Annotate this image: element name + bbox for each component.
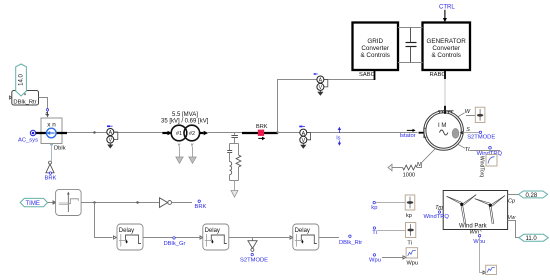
node circle (49, 161, 52, 164)
svg-text:CTRL: CTRL (439, 5, 455, 11)
wind turbine 2 (475, 196, 505, 225)
svg-text:WindTorq: WindTorq (478, 156, 484, 177)
svg-text:Win: Win (470, 230, 480, 236)
scope W (486, 265, 497, 274)
svg-text:V: V (109, 138, 113, 144)
port Cp to 0.28 (508, 195, 519, 205)
port Tl (458, 144, 500, 153)
buffer triangle (46, 164, 54, 173)
Delay block 2 (203, 224, 229, 250)
svg-text:Converter: Converter (361, 45, 389, 52)
bus wire xn to transformer (67, 132, 163, 134)
thick wire AC source (33, 132, 67, 134)
svg-text:A: A (109, 130, 113, 136)
svg-text:DBlk_Rtr: DBlk_Rtr (339, 240, 362, 246)
wind turbine 1 (447, 195, 477, 224)
label Wpu with wire (369, 254, 406, 264)
svg-text:Ti: Ti (407, 240, 411, 246)
junction at BRK right (276, 131, 278, 133)
slider kp (405, 195, 415, 219)
label kp with wire (371, 201, 405, 210)
svg-text:Delay: Delay (205, 228, 220, 234)
svg-text:AC_sys: AC_sys (18, 138, 38, 144)
label Ti with wire (372, 227, 405, 236)
component DBlk_Rtr (9, 91, 38, 106)
svg-text:DBlk_Gr: DBlk_Gr (164, 241, 186, 247)
label BRK (left) (45, 172, 57, 181)
Delay block 1 (117, 224, 143, 250)
input TIME (20, 198, 47, 206)
svg-text:Is: Is (336, 136, 340, 142)
wire Delay1 to Delay2, label DBlk_Gr (143, 237, 200, 239)
label WindTRQ (wind park) (424, 211, 450, 220)
svg-text:14.0: 14.0 (19, 74, 25, 86)
wire RABC to machine (444, 79, 446, 106)
svg-text:A: A (319, 78, 323, 84)
tap to S2TMODE (240, 238, 268, 264)
multimeter M3 (upper) (313, 73, 328, 96)
svg-text:WindTRQ: WindTRQ (424, 214, 450, 220)
junction dot (136, 201, 138, 203)
node AC_sys (18, 130, 38, 143)
svg-text:BRK: BRK (256, 124, 268, 130)
wire Win down to scope (480, 237, 484, 273)
svg-text:GRID: GRID (367, 38, 383, 45)
port W (458, 109, 476, 117)
svg-text:V: V (319, 85, 323, 91)
svg-text:Tm: Tm (435, 205, 443, 211)
svg-text:11.0: 11.0 (526, 236, 538, 242)
port Tm (435, 205, 443, 211)
svg-text:& Controls: & Controls (431, 52, 460, 59)
svg-text:Ti: Ti (372, 230, 377, 236)
junction dot (93, 131, 95, 133)
W meter box (475, 107, 485, 122)
svg-text:S: S (466, 127, 470, 133)
svg-text:Tl: Tl (465, 147, 470, 153)
svg-text:I M: I M (438, 123, 446, 129)
timed breaker logic block (56, 189, 82, 215)
filter branch (227, 133, 241, 198)
SABC stub (374, 70, 376, 80)
svg-text:kp: kp (371, 205, 377, 211)
svg-text:V: V (302, 138, 306, 144)
label WindTRQ (machine) (477, 147, 503, 157)
wire Delay3 output, label DBlk_Rtr (319, 237, 339, 239)
output 0.28 (519, 191, 548, 199)
wire up to grid converter (278, 80, 375, 133)
breaker BRK (242, 124, 278, 140)
source block x n (Dblk) (41, 118, 62, 144)
svg-text:Delay: Delay (119, 228, 134, 234)
wire down to Delay 1 (95, 203, 113, 238)
svg-text:GENERATOR: GENERATOR (427, 38, 467, 45)
slider Ti (406, 223, 416, 247)
label BRK (output) (195, 200, 207, 210)
port Win (470, 230, 482, 236)
port S with marker (452, 127, 480, 138)
transformer T1 (162, 125, 208, 141)
svg-text:#2: #2 (189, 131, 195, 137)
svg-text:1000: 1000 (403, 172, 415, 178)
svg-text:Dblk: Dblk (54, 146, 66, 152)
bus wire BRK to machine (278, 132, 418, 134)
svg-text:5.5 [MVA]: 5.5 [MVA] (172, 112, 198, 118)
Delay block 3 (293, 224, 319, 250)
svg-text:W: W (465, 109, 471, 115)
svg-text:Converter: Converter (432, 45, 460, 52)
svg-text:Cp: Cp (508, 198, 515, 204)
Istator arrow and label (400, 129, 416, 139)
induction machine (424, 111, 464, 151)
multimeter M2 (299, 126, 310, 149)
machine left terminal (419, 127, 427, 138)
svg-text:kp: kp (406, 213, 412, 219)
machine top terminal (438, 106, 454, 114)
svg-text:RABC: RABC (430, 72, 446, 78)
DC link wires (398, 27, 423, 29)
wire DBlk_Rtr to xn (39, 98, 48, 116)
NOT gate (160, 198, 193, 208)
svg-text:#1: #1 (176, 131, 182, 137)
GENERATOR converter box (423, 23, 471, 71)
input 11.0 (519, 234, 548, 242)
wire timed logic to NOT gate (81, 202, 159, 204)
svg-text:SABC: SABC (359, 72, 375, 78)
RABC stub (444, 70, 446, 79)
svg-text:Wpu: Wpu (407, 260, 419, 266)
svg-text:DBlk_Rtr: DBlk_Rtr (13, 99, 36, 105)
WindTorq block (478, 155, 497, 178)
transformer winding ground arrows (176, 144, 196, 164)
svg-text:S2TMODE: S2TMODE (240, 258, 268, 264)
DC link capacitor (406, 28, 417, 63)
current label Is (336, 127, 341, 146)
node label n (46, 109, 49, 117)
label S2TMODE (machine) (467, 131, 495, 140)
multimeter M1 (107, 125, 118, 148)
junction dot (93, 201, 95, 203)
svg-text:0.28: 0.28 (526, 193, 538, 199)
CTRL input (439, 5, 455, 23)
svg-text:S2TMODE: S2TMODE (467, 135, 495, 141)
svg-text:Istator: Istator (400, 133, 416, 139)
svg-text:Delay: Delay (295, 228, 310, 234)
port Vw to 11.0 (508, 215, 519, 237)
wire Dblk down to breaker control (50, 144, 53, 147)
Wind Park box (443, 191, 507, 230)
slider input 14.0 (16, 64, 27, 96)
GRID converter box (353, 23, 399, 71)
port N with resistor to ground (388, 148, 436, 178)
svg-text:BRK: BRK (45, 175, 57, 181)
svg-text:x n: x n (47, 121, 56, 128)
svg-text:Wpu: Wpu (369, 258, 381, 264)
svg-text:BRK: BRK (195, 204, 207, 210)
scope Wpu (406, 248, 418, 267)
svg-text:n: n (46, 111, 49, 117)
svg-text:TIME: TIME (26, 201, 40, 207)
wire Delay2 to Delay3 (229, 237, 290, 239)
label Wpu (wind park) (473, 235, 485, 245)
svg-text:& Controls: & Controls (360, 52, 389, 59)
wire TIME to timed logic (48, 202, 55, 204)
bus wire transformer to BRK (208, 132, 242, 134)
svg-text:35 [kV] / 0.69 [kV]: 35 [kV] / 0.69 [kV] (161, 118, 209, 124)
source symbol arrow circle (47, 128, 57, 138)
